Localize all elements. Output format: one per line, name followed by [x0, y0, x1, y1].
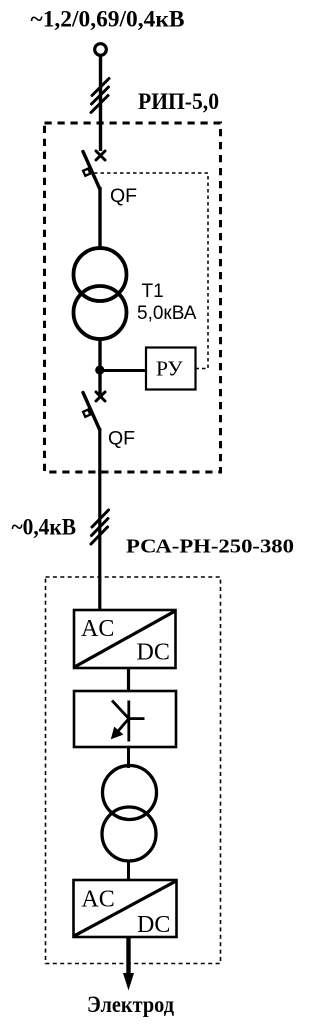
dashed enclosure RSA-RN-250-380	[46, 577, 221, 964]
label Electrode	[87, 992, 174, 1018]
svg-text:Электрод: Электрод	[87, 992, 174, 1018]
cable marks (3 slashes) on 0,4kV wire	[91, 510, 109, 544]
wire T2 to converter UZ2	[127, 860, 130, 881]
label QF1	[110, 185, 137, 207]
net label ~1,2/0,69/0,4kV	[31, 7, 185, 33]
circuit breaker QF1 release square	[83, 169, 90, 176]
label T1	[142, 281, 164, 302]
converter UZ2 (AC/DC) box	[74, 880, 177, 938]
wire QF1 to T1	[98, 187, 101, 250]
net label ~0,4kV	[12, 515, 77, 541]
svg-text:QF: QF	[108, 428, 135, 450]
wire UZ1 to regulator	[127, 668, 130, 691]
wire QF2 to converter unit	[98, 428, 101, 611]
circuit breaker QF2 blade	[83, 393, 100, 431]
transformer T1 secondary winding	[74, 286, 127, 339]
transformer T1 primary winding	[74, 248, 127, 301]
unit label RSA-RN-250-380	[126, 536, 294, 558]
svg-text:DC: DC	[137, 640, 170, 666]
regulator symbol arrow	[112, 701, 129, 739]
circuit breaker QF2 fixed contact (x)	[96, 392, 105, 401]
regulator symbol gate tick	[129, 717, 145, 720]
circuit breaker QF1 fixed contact (x)	[96, 151, 105, 160]
svg-text:AC: AC	[81, 616, 114, 642]
regulator symbol vertical lead	[127, 701, 130, 742]
svg-text:5,0кВА: 5,0кВА	[137, 303, 197, 324]
circuit breaker QF1 blade	[83, 152, 100, 190]
cable marks (3 slashes) on input wire	[91, 79, 109, 113]
svg-text:~0,4кВ: ~0,4кВ	[12, 515, 77, 541]
transformer T2 secondary winding	[102, 807, 156, 861]
wire T1 to junction	[98, 338, 101, 394]
label QF2	[108, 428, 135, 450]
dashed enclosure RIP-5,0	[45, 123, 221, 472]
transformer T2 primary winding	[103, 766, 157, 820]
svg-text:AC: AC	[81, 887, 114, 913]
svg-text:РИП-5,0: РИП-5,0	[138, 89, 219, 115]
terminal X1	[95, 44, 107, 56]
control box RU	[146, 348, 196, 390]
wire junction to RU box	[100, 369, 146, 372]
label 5,0kVA	[137, 303, 197, 324]
svg-text:DC: DC	[137, 912, 170, 938]
svg-text:РСА-РН-250-380: РСА-РН-250-380	[126, 536, 294, 558]
regulator box	[74, 691, 176, 747]
converter UZ1 (AC/DC) box	[74, 610, 176, 668]
junction node	[95, 365, 104, 374]
wire from terminal to QF1	[99, 57, 102, 152]
circuit breaker QF2 release square	[83, 410, 90, 417]
control linkage dotted line QF1 to RU	[94, 173, 208, 369]
wire regulator to T2	[127, 747, 130, 768]
svg-text:РУ: РУ	[156, 357, 183, 381]
svg-text:QF: QF	[110, 185, 137, 207]
svg-text:Т1: Т1	[142, 281, 164, 302]
unit label RIP-5,0	[138, 89, 219, 115]
output arrow to electrode	[123, 937, 134, 991]
svg-text:~1,2/0,69/0,4кВ: ~1,2/0,69/0,4кВ	[31, 7, 185, 33]
